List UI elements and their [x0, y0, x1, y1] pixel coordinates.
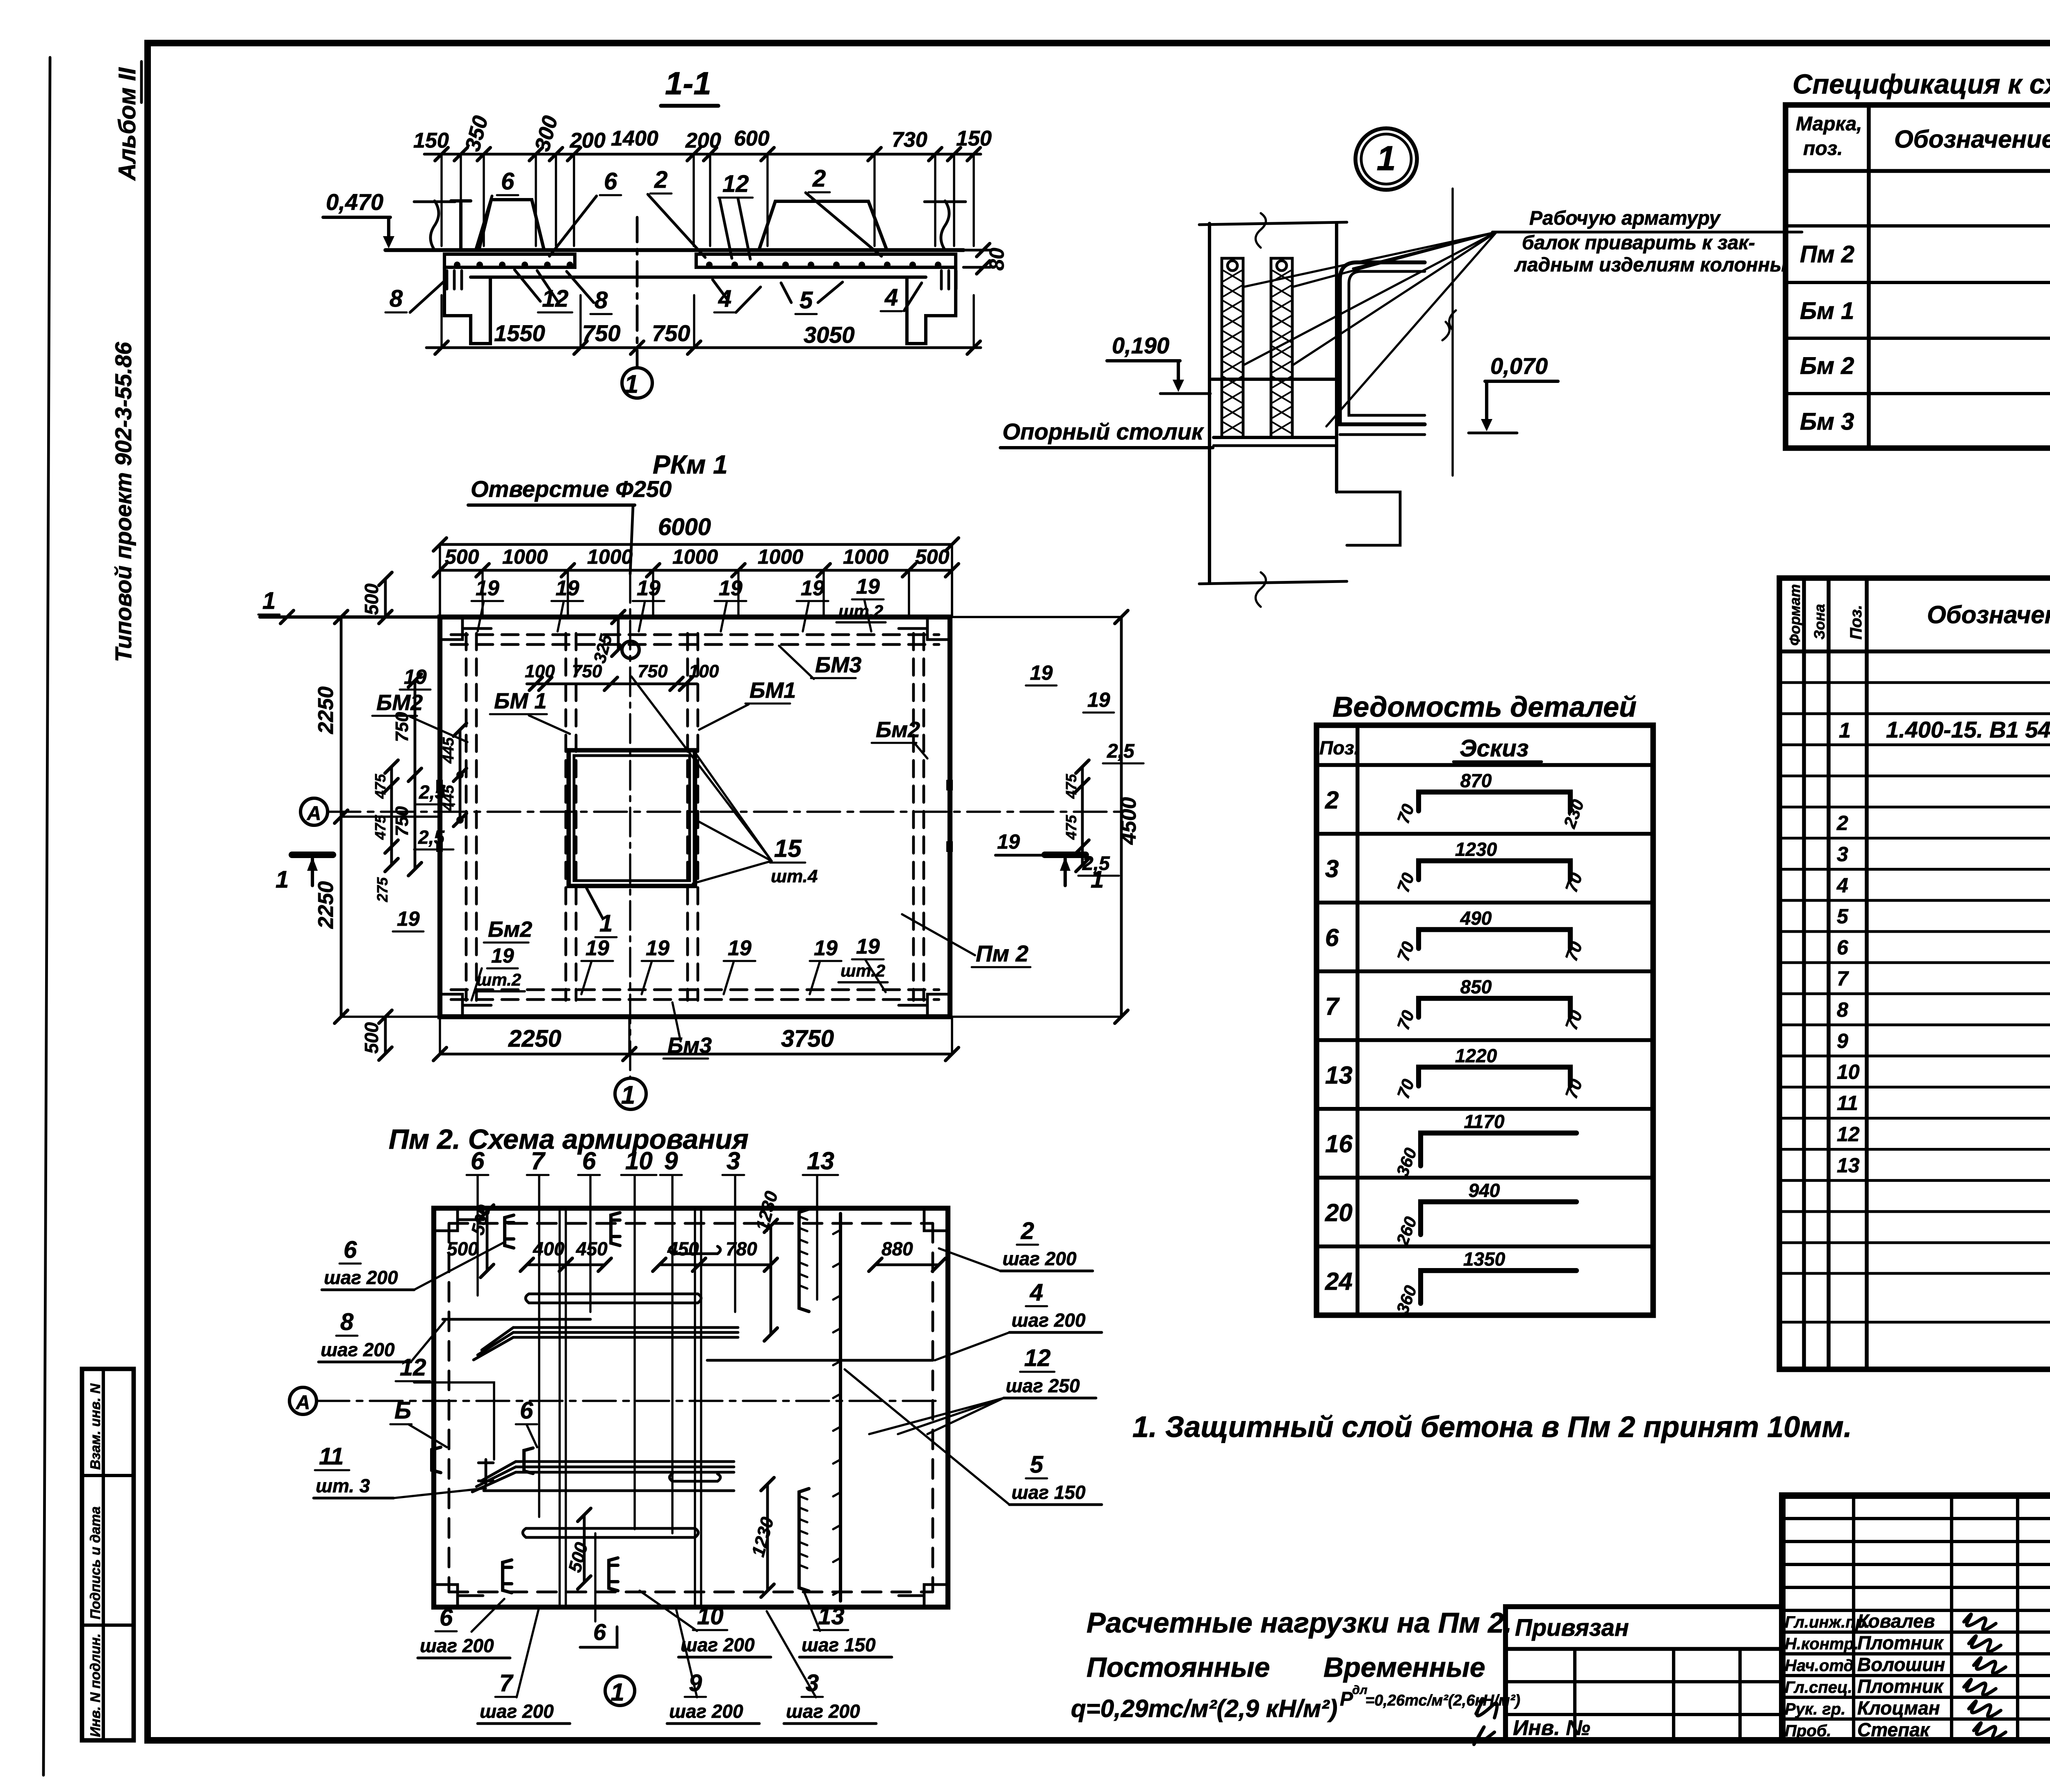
svg-text:6: 6 — [501, 168, 515, 195]
beam Bm1 dashed (mid-left) — [565, 633, 567, 1000]
svg-text:3: 3 — [1837, 842, 1848, 865]
svg-text:2: 2 — [812, 165, 826, 192]
svg-text:Инв. N подлин.: Инв. N подлин. — [88, 1633, 103, 1737]
svg-text:Пм 2. Схема армирования: Пм 2. Схема армирования — [389, 1124, 749, 1155]
svg-text:6: 6 — [471, 1147, 485, 1175]
svg-text:19: 19 — [476, 576, 499, 600]
svg-text:2250: 2250 — [508, 1025, 561, 1052]
svg-text:Ковалев: Ковалев — [1857, 1610, 1935, 1632]
svg-text:1: 1 — [1839, 719, 1851, 742]
svg-text:4: 4 — [1030, 1279, 1043, 1306]
paper edge line — [43, 57, 50, 1775]
svg-text:6: 6 — [582, 1147, 596, 1175]
svg-text:8: 8 — [389, 285, 403, 312]
svg-text:Бм 2: Бм 2 — [1800, 353, 1854, 379]
svg-text:Спецификация к схеме расположе: Спецификация к схеме расположения элемен… — [1793, 69, 2050, 100]
beam Bm3 dashed (top) — [451, 633, 939, 636]
svg-text:2,5: 2,5 — [1082, 853, 1110, 874]
svg-text:19: 19 — [814, 936, 838, 960]
axis A circle — [301, 798, 328, 825]
svg-text:19: 19 — [728, 936, 752, 960]
svg-text:шаг 200: шаг 200 — [786, 1701, 860, 1722]
section line 1 (top) — [260, 615, 440, 619]
svg-text:Степак: Степак — [1857, 1719, 1931, 1740]
slab soffit line — [471, 276, 926, 279]
bottom dimension line — [426, 346, 981, 349]
svg-text:12: 12 — [400, 1354, 426, 1381]
horizontal rebar bundle 8/11 (upper) — [513, 1326, 738, 1329]
svg-text:19: 19 — [856, 935, 880, 959]
centre axis vertical (plan) — [629, 574, 631, 1077]
svg-text:БМ3: БМ3 — [815, 653, 861, 677]
svg-text:3: 3 — [1325, 855, 1339, 883]
svg-text:19: 19 — [997, 830, 1020, 853]
svg-text:1: 1 — [1377, 139, 1396, 178]
svg-text:Нач.отд: Нач.отд — [1785, 1657, 1854, 1675]
svg-text:10: 10 — [625, 1147, 653, 1175]
svg-text:12: 12 — [722, 171, 749, 197]
svg-text:5: 5 — [1030, 1451, 1043, 1478]
svg-text:19: 19 — [556, 576, 579, 600]
svg-text:0,070: 0,070 — [1490, 353, 1548, 379]
svg-text:10: 10 — [1837, 1061, 1860, 1084]
svg-text:шаг 150: шаг 150 — [802, 1634, 876, 1655]
lower tie bars with hooks — [523, 1528, 698, 1537]
svg-text:Бм 3: Бм 3 — [1800, 408, 1854, 435]
privyazan box — [1506, 1607, 1782, 1740]
svg-text:1: 1 — [621, 1081, 635, 1109]
svg-text:Формат: Формат — [1786, 584, 1803, 646]
svg-text:940: 940 — [1469, 1179, 1500, 1201]
svg-text:5: 5 — [799, 287, 813, 314]
svg-text:8: 8 — [340, 1309, 354, 1335]
svg-text:Обозначение: Обозначение — [1927, 601, 2050, 628]
svg-text:шт.4: шт.4 — [771, 866, 818, 886]
svg-text:Н.контр.: Н.контр. — [1785, 1635, 1859, 1653]
svg-text:Плотник: Плотник — [1857, 1676, 1944, 1697]
svg-text:9: 9 — [1837, 1029, 1848, 1052]
svg-text:шаг 200: шаг 200 — [669, 1701, 743, 1722]
svg-text:Инв. №: Инв. № — [1513, 1716, 1590, 1740]
svg-text:Плотник: Плотник — [1857, 1632, 1944, 1653]
tall stirrups 13 (right) — [799, 1209, 809, 1312]
edge weld plate marks — [436, 780, 443, 790]
svg-text:1400: 1400 — [611, 127, 658, 150]
axis A circle (scheme) — [289, 1387, 317, 1414]
left dim 500 (top) — [384, 579, 387, 617]
left break mark — [430, 201, 439, 250]
horizontal rebar 4 (right upper) — [707, 1359, 932, 1362]
right support column stub — [907, 267, 956, 344]
svg-text:6000: 6000 — [658, 514, 711, 540]
support bracket (stolik) — [1214, 436, 1335, 439]
scheme corner details — [434, 1208, 483, 1231]
left wall stub above — [459, 201, 462, 250]
small stirrup top-mid — [670, 1246, 720, 1254]
svg-text:5: 5 — [1837, 905, 1849, 928]
svg-text:6: 6 — [1837, 936, 1849, 959]
svg-text:8: 8 — [1837, 998, 1848, 1021]
svg-text:РКм 1: РКм 1 — [653, 450, 728, 479]
beam Bm2 dashed (right) — [912, 633, 915, 1000]
beam haunch trapezoid right — [759, 201, 887, 250]
svg-text:850: 850 — [1460, 976, 1492, 997]
lower ledge — [1337, 492, 1400, 545]
dim 100 750 750 100 — [527, 683, 697, 685]
scheme node circle 1 — [605, 1676, 635, 1705]
svg-text:19: 19 — [1087, 688, 1110, 711]
plan outline — [440, 617, 950, 1017]
svg-text:750: 750 — [638, 661, 668, 681]
svg-text:750: 750 — [652, 320, 690, 346]
svg-text:150: 150 — [413, 129, 449, 153]
svg-text:Рук. гр.: Рук. гр. — [1785, 1700, 1845, 1718]
svg-text:Поз.: Поз. — [1847, 605, 1865, 640]
svg-text:Постоянные: Постоянные — [1086, 1652, 1270, 1683]
svg-text:19: 19 — [404, 665, 427, 688]
svg-text:2,5: 2,5 — [1107, 740, 1135, 762]
svg-text:19: 19 — [856, 575, 880, 599]
svg-text:2,5: 2,5 — [418, 827, 445, 848]
svg-text:6: 6 — [440, 1604, 453, 1631]
svg-text:780: 780 — [726, 1238, 757, 1259]
svg-text:Рабочую арматуру: Рабочую арматуру — [1529, 207, 1721, 229]
svg-text:1000: 1000 — [672, 545, 718, 568]
svg-text:275: 275 — [374, 877, 391, 902]
svg-text:19: 19 — [491, 944, 514, 967]
axis dash-dot line — [328, 811, 1123, 813]
svg-text:поз.: поз. — [1803, 138, 1843, 159]
svg-text:4: 4 — [884, 284, 898, 311]
svg-text:шт.2: шт.2 — [476, 970, 521, 989]
scheme dashed inner outline — [449, 1222, 933, 1225]
svg-text:q=0,29тс/м²(2,9 кН/м²): q=0,29тс/м²(2,9 кН/м²) — [1071, 1695, 1337, 1722]
svg-text:2: 2 — [654, 166, 667, 193]
svg-text:Клоцман: Клоцман — [1857, 1697, 1940, 1719]
svg-text:Типовой проект 902-3-55.86: Типовой проект 902-3-55.86 — [110, 342, 136, 662]
svg-text:400: 400 — [533, 1238, 565, 1259]
svg-text:9: 9 — [664, 1147, 678, 1175]
svg-text:2,5: 2,5 — [419, 781, 446, 803]
left plate band with rebar dots — [444, 254, 575, 267]
dim 445/445 — [459, 730, 462, 820]
svg-text:Взам. инв. N: Взам. инв. N — [88, 1383, 103, 1470]
svg-text:11: 11 — [319, 1443, 344, 1470]
svg-text:13: 13 — [1837, 1154, 1860, 1177]
svg-text:Марка,: Марка, — [1796, 113, 1862, 135]
svg-text:870: 870 — [1460, 770, 1492, 791]
svg-text:15: 15 — [774, 835, 802, 862]
svg-text:500: 500 — [445, 545, 479, 568]
left dim 500 (bottom) — [384, 1017, 387, 1054]
plan node circle 1 — [615, 1078, 646, 1109]
svg-text:4: 4 — [1836, 874, 1848, 897]
svg-text:500: 500 — [361, 583, 382, 615]
svg-text:500: 500 — [915, 545, 950, 568]
svg-text:1: 1 — [610, 1678, 624, 1706]
dim chain 500-1000x5-500 — [440, 569, 952, 572]
svg-text:13: 13 — [1325, 1061, 1353, 1089]
svg-text:БМ1: БМ1 — [749, 678, 796, 703]
svg-text:750: 750 — [392, 806, 412, 836]
signature squiggle — [1476, 1699, 1497, 1718]
svg-text:880: 880 — [881, 1238, 913, 1259]
svg-text:3750: 3750 — [781, 1025, 834, 1052]
svg-text:3: 3 — [727, 1147, 740, 1175]
svg-text:1.400-15. В1 540-09: 1.400-15. В1 540-09 — [1886, 717, 2050, 742]
column outline — [1208, 223, 1211, 582]
svg-text:шт. 3: шт. 3 — [316, 1475, 370, 1496]
beam Bm1 dashed (mid-right) — [686, 633, 689, 1000]
svg-text:200: 200 — [685, 129, 721, 153]
svg-text:0,470: 0,470 — [326, 189, 383, 215]
svg-text:80: 80 — [985, 248, 1008, 271]
slab top line — [385, 248, 963, 252]
svg-text:100: 100 — [689, 661, 719, 681]
svg-text:19: 19 — [719, 576, 743, 600]
svg-text:10: 10 — [697, 1603, 724, 1630]
svg-text:Б: Б — [394, 1397, 411, 1424]
svg-text:6: 6 — [344, 1236, 357, 1263]
vedomost table frame — [1317, 725, 1653, 1315]
svg-text:балок приварить к зак-: балок приварить к зак- — [1522, 232, 1755, 254]
svg-text:1-1: 1-1 — [665, 65, 711, 101]
svg-text:500: 500 — [447, 1238, 478, 1259]
svg-text:7: 7 — [1837, 967, 1849, 990]
horizontal rebar bundle 11 (lower) — [516, 1460, 734, 1463]
svg-text:13: 13 — [818, 1603, 845, 1630]
beam Bm3 dashed (bottom) — [451, 988, 939, 991]
svg-text:Альбом II: Альбом II — [114, 67, 141, 181]
svg-text:730: 730 — [892, 128, 927, 152]
svg-text:1. Защитный слой бетона в Пм 2: 1. Защитный слой бетона в Пм 2 принят 10… — [1132, 1411, 1852, 1444]
svg-text:1230: 1230 — [1455, 839, 1497, 860]
svg-text:БМ 1: БМ 1 — [494, 689, 547, 713]
svg-text:ладным изделиям колонны: ладным изделиям колонны — [1514, 254, 1787, 276]
svg-text:БМ2: БМ2 — [376, 690, 423, 715]
svg-text:6: 6 — [520, 1397, 533, 1424]
svg-text:475: 475 — [372, 815, 389, 840]
title block left grid — [1782, 1517, 2050, 1520]
svg-text:1: 1 — [276, 866, 289, 893]
svg-text:16: 16 — [1325, 1130, 1353, 1158]
svg-text:750: 750 — [572, 661, 602, 681]
svg-text:Эскиз: Эскиз — [1460, 735, 1528, 762]
beam axis dash line — [1451, 189, 1453, 476]
svg-text:475: 475 — [372, 774, 389, 799]
svg-text:Проб.: Проб. — [1785, 1722, 1831, 1740]
svg-text:500: 500 — [361, 1022, 382, 1054]
svg-text:6: 6 — [1325, 924, 1339, 951]
svg-text:450: 450 — [576, 1238, 608, 1259]
svg-text:7: 7 — [499, 1670, 514, 1696]
svg-text:8: 8 — [594, 287, 608, 314]
beam Bm2 dashed (left) — [465, 633, 468, 1000]
svg-text:12: 12 — [1024, 1345, 1051, 1371]
svg-text:1000: 1000 — [502, 545, 548, 568]
svg-text:Бм2: Бм2 — [488, 917, 532, 942]
svg-text:1000: 1000 — [843, 545, 888, 568]
thickness dim 80 (rot) — [963, 249, 990, 252]
title block frame — [1782, 1496, 2050, 1740]
svg-text:А: А — [307, 803, 321, 824]
section mark 1 (right) — [1045, 852, 1086, 858]
svg-text:19: 19 — [1030, 661, 1053, 684]
svg-text:6: 6 — [593, 1619, 606, 1645]
hole circle — [622, 641, 639, 658]
svg-text:2: 2 — [1325, 786, 1339, 814]
svg-text:450: 450 — [667, 1238, 699, 1259]
svg-text:475: 475 — [1063, 774, 1080, 799]
svg-text:Гл.спец.: Гл.спец. — [1785, 1678, 1852, 1696]
corner stirrups — [505, 1215, 514, 1248]
svg-text:Пм 2: Пм 2 — [976, 940, 1028, 966]
vertical rebar 13 with hooks — [839, 1214, 842, 1601]
svg-text:шт.2: шт.2 — [840, 961, 885, 980]
svg-text:3050: 3050 — [804, 322, 855, 348]
centre axis line — [636, 217, 639, 367]
svg-text:Волошин: Волошин — [1857, 1654, 1945, 1675]
svg-text:1000: 1000 — [587, 545, 633, 568]
svg-text:7: 7 — [531, 1147, 546, 1175]
leader fan lines — [1243, 232, 1496, 287]
embedded plate strips with hatch — [1222, 258, 1243, 437]
left dim 2250/2250 — [340, 617, 343, 1017]
small stirrup bot-mid — [670, 1474, 720, 1481]
svg-text:7: 7 — [1325, 993, 1340, 1020]
svg-text:100: 100 — [525, 661, 555, 681]
svg-text:шаг 200: шаг 200 — [420, 1635, 494, 1656]
svg-text:Поз.: Поз. — [1319, 737, 1359, 758]
svg-text:шаг 200: шаг 200 — [1011, 1309, 1086, 1331]
detail node circle 1 — [1355, 128, 1417, 190]
svg-text:19: 19 — [637, 576, 661, 600]
svg-text:Подпись и дата: Подпись и дата — [88, 1506, 103, 1619]
svg-text:1170: 1170 — [1464, 1111, 1505, 1132]
svg-text:475: 475 — [1063, 815, 1080, 840]
svg-text:1350: 1350 — [1463, 1248, 1506, 1270]
scheme outline — [434, 1208, 948, 1607]
svg-text:600: 600 — [734, 127, 770, 150]
svg-text:2250: 2250 — [314, 881, 338, 929]
parts table frame — [1779, 578, 2050, 1369]
svg-text:Зона: Зона — [1811, 604, 1828, 640]
right break mark — [941, 201, 949, 250]
svg-text:шаг 200: шаг 200 — [480, 1701, 554, 1722]
svg-text:2: 2 — [1836, 812, 1848, 835]
stirrup marks (right mid) — [478, 1460, 493, 1484]
svg-text:12: 12 — [1837, 1123, 1860, 1146]
svg-text:шаг 200: шаг 200 — [1002, 1248, 1077, 1269]
svg-text:0,190: 0,190 — [1112, 332, 1169, 358]
bottom dim 2250/3750 — [440, 1053, 952, 1056]
svg-text:19: 19 — [397, 907, 420, 930]
svg-text:Пм 2: Пм 2 — [1800, 241, 1854, 268]
svg-text:Бм 1: Бм 1 — [1800, 298, 1854, 324]
svg-text:1000: 1000 — [758, 545, 803, 568]
svg-text:Бм2: Бм2 — [876, 717, 920, 742]
svg-text:200: 200 — [569, 129, 606, 153]
svg-text:1550: 1550 — [494, 320, 545, 346]
right plate band with rebar dots — [696, 254, 956, 267]
svg-text:11: 11 — [1837, 1092, 1858, 1115]
svg-text:Р: Р — [1340, 1688, 1353, 1710]
svg-text:19: 19 — [801, 576, 825, 600]
svg-text:750: 750 — [582, 320, 620, 346]
svg-text:Ведомость деталей: Ведомость деталей — [1332, 691, 1637, 723]
svg-text:1: 1 — [624, 370, 638, 398]
svg-text:445: 445 — [440, 737, 457, 764]
svg-text:20: 20 — [1325, 1199, 1353, 1226]
svg-text:2: 2 — [1020, 1218, 1034, 1244]
svg-text:Обозначение: Обозначение — [1894, 125, 2050, 153]
specification table frame — [1786, 105, 2050, 448]
svg-text:шаг 200: шаг 200 — [681, 1634, 755, 1655]
svg-text:4500: 4500 — [1117, 797, 1141, 845]
dim 750/750 (left inner) — [414, 681, 417, 869]
svg-text:150: 150 — [956, 127, 992, 150]
svg-text:1: 1 — [262, 587, 276, 614]
corner details — [440, 617, 491, 640]
section node circle 1 — [622, 368, 652, 398]
svg-text:19: 19 — [646, 936, 670, 960]
svg-text:шаг 200: шаг 200 — [324, 1267, 398, 1288]
svg-text:490: 490 — [1460, 907, 1492, 929]
svg-text:19: 19 — [585, 936, 609, 960]
svg-text:1220: 1220 — [1455, 1045, 1497, 1066]
svg-text:шаг 200: шаг 200 — [321, 1339, 395, 1360]
long vertical rebars — [558, 1208, 560, 1607]
left stamp table — [82, 1369, 134, 1740]
right dim 4500 — [1120, 617, 1123, 1017]
section mark 1 (left) — [292, 852, 333, 858]
svg-text:Опорный столик: Опорный столик — [1002, 419, 1204, 444]
svg-text:шаг 150: шаг 150 — [1011, 1482, 1086, 1503]
svg-text:Привязан: Привязан — [1515, 1614, 1629, 1641]
svg-text:24: 24 — [1325, 1268, 1353, 1295]
bearing level line — [1212, 378, 1335, 381]
svg-text:6: 6 — [604, 168, 617, 195]
svg-text:Временные: Временные — [1323, 1652, 1485, 1683]
svg-text:2250: 2250 — [314, 686, 338, 734]
svg-text:А: А — [296, 1392, 310, 1414]
svg-text:шаг 250: шаг 250 — [1006, 1375, 1080, 1396]
svg-text:Расчетные нагрузки на Пм 2.: Расчетные нагрузки на Пм 2. — [1086, 1607, 1512, 1639]
svg-text:шт.2: шт.2 — [838, 601, 883, 621]
svg-text:Отверстие Ф250: Отверстие Ф250 — [471, 476, 672, 502]
left support column stub — [444, 267, 490, 344]
beam channel section — [1340, 262, 1425, 424]
svg-text:13: 13 — [807, 1147, 834, 1175]
top dimension line — [424, 153, 981, 156]
beam haunch trapezoid left — [479, 200, 544, 250]
opening double rectangle — [569, 750, 695, 886]
